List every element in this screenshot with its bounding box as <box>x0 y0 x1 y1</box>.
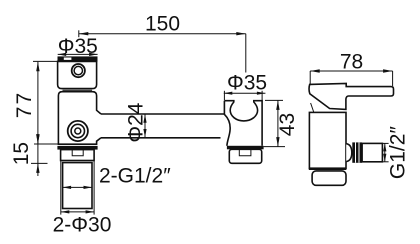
threaded inlet pipe <box>63 163 92 209</box>
dimension 15 extension bottom <box>31 162 48 164</box>
svg-text:2-G1/2″: 2-G1/2″ <box>99 165 171 188</box>
escutcheon tab <box>72 150 83 156</box>
outlet neck arc <box>346 144 352 162</box>
faucet wall flange (filled) <box>57 146 97 150</box>
holder left edge and waist <box>224 101 230 146</box>
outlet end cap <box>362 143 382 161</box>
dimension Phi30 extensions <box>60 161 62 215</box>
dimension Phi24 line <box>144 114 146 137</box>
dimension G1/2 arrows in pipe <box>63 186 92 188</box>
faucet escutcheon <box>61 150 95 161</box>
svg-text:Φ35: Φ35 <box>227 72 267 95</box>
right body block <box>309 112 346 168</box>
faucet top cap (filled) <box>58 56 98 61</box>
dimension 150 line <box>79 33 246 35</box>
upper knob circle <box>72 64 85 77</box>
dimension 77 top extension <box>33 60 58 62</box>
holder outline <box>224 101 262 146</box>
dimension 43 bottom extension <box>264 146 285 148</box>
svg-text:15: 15 <box>10 142 33 165</box>
right body bottom thick edge <box>309 168 347 170</box>
svg-text:77: 77 <box>13 91 36 118</box>
dimension Phi35 top line <box>58 53 98 55</box>
svg-text:43: 43 <box>276 113 299 136</box>
svg-text:G1/2″: G1/2″ <box>386 126 409 180</box>
outlet thread block (filled) <box>352 142 362 162</box>
faucet upper body block <box>58 61 97 88</box>
holder escutcheon tab <box>239 150 251 156</box>
lower knob circles <box>68 121 88 141</box>
svg-text:78: 78 <box>340 50 363 73</box>
svg-text:2-Φ30: 2-Φ30 <box>53 214 112 237</box>
rail bar top line <box>101 113 224 115</box>
holder escutcheon <box>229 149 261 163</box>
dimension 15 line <box>37 134 39 176</box>
dimension Phi35 holder line <box>224 92 266 94</box>
dimension 15 extension top <box>34 143 58 145</box>
right base escutcheon <box>312 171 346 185</box>
dimension 43 top extension <box>265 99 283 101</box>
handle skirt diagonal <box>311 103 316 118</box>
holder wall flange (filled) <box>227 146 264 150</box>
faucet lower body block <box>58 92 101 145</box>
dimension 43 line <box>277 100 279 146</box>
dimension 77 line <box>37 62 39 144</box>
dimension G1/2 line <box>384 143 386 161</box>
svg-text:Φ24: Φ24 <box>124 102 147 142</box>
svg-text:150: 150 <box>145 13 180 36</box>
joint line between blocks <box>63 89 93 91</box>
dimension 78 line <box>310 70 392 72</box>
dimension G1/2 ticks <box>381 142 389 144</box>
dimension Phi30 line <box>61 211 94 213</box>
handle lever body <box>309 83 393 109</box>
dimension 78 extensions <box>309 71 311 94</box>
rail bar bottom line <box>101 137 221 139</box>
dimension 150 right extension <box>245 34 247 73</box>
